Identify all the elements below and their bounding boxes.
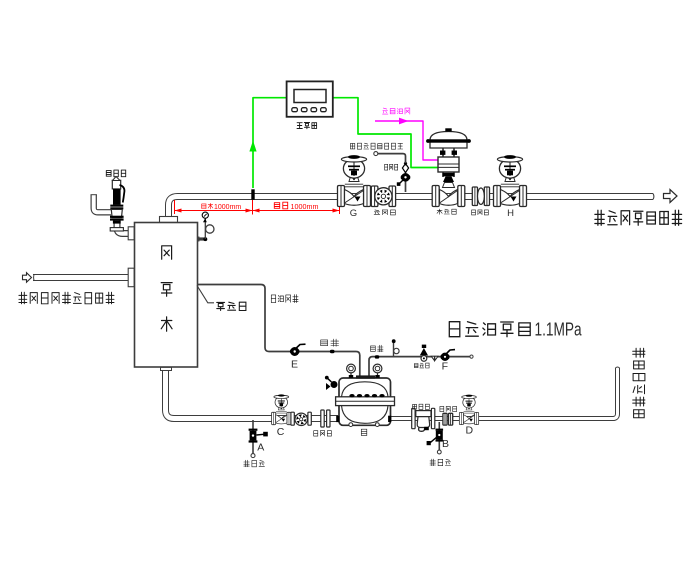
svg-text:D: D <box>466 425 474 437</box>
svg-text:A: A <box>257 442 264 454</box>
svg-text:G: G <box>350 208 357 219</box>
svg-text:1000mm: 1000mm <box>214 204 241 211</box>
svg-text:H: H <box>507 208 514 219</box>
svg-text:F: F <box>442 361 448 373</box>
svg-text:C: C <box>277 426 285 438</box>
svg-text:1.1MPa: 1.1MPa <box>535 320 583 340</box>
svg-text:1000mm: 1000mm <box>291 202 319 211</box>
svg-text:B: B <box>442 438 449 450</box>
svg-text:E: E <box>291 359 298 371</box>
